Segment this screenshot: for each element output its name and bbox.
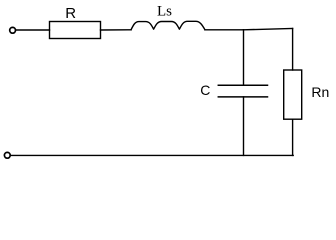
wire (node A down to C top plate)	[243, 30, 245, 86]
wire (Rn down to bottom rail)	[292, 119, 294, 155]
wire (top-right corner down to Rn)	[292, 29, 294, 71]
wire (node A to top-right corner)	[244, 29, 293, 30]
wire (R to Ls)	[101, 29, 132, 31]
svg-text:Rn: Rn	[311, 84, 329, 100]
resistor R	[50, 22, 101, 39]
svg-text:Ls: Ls	[157, 3, 172, 19]
inductor Ls	[131, 21, 205, 30]
resistor Rn	[284, 70, 302, 119]
wire (C bottom plate down to bottom rail)	[243, 97, 245, 155]
terminal J2 (bottom-left return)	[4, 152, 10, 158]
svg-text:R: R	[65, 5, 76, 22]
capacitor C	[218, 85, 267, 97]
wire (bottom rail)	[11, 154, 294, 156]
terminal J1 (top-left input)	[10, 27, 16, 33]
wire (Ls to node A)	[205, 29, 244, 31]
wire (input to R)	[16, 29, 49, 31]
svg-text:C: C	[200, 82, 210, 98]
